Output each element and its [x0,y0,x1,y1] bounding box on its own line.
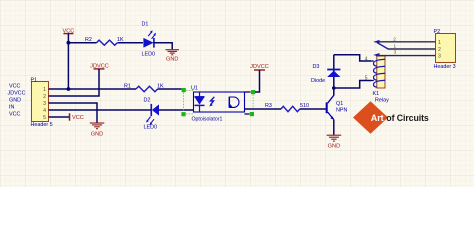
junction VCC / R2 branch [67,41,71,45]
svg-text:JDVCC: JDVCC [250,64,269,70]
resistor R1 [124,83,164,91]
svg-text:GND: GND [9,98,21,104]
svg-text:D3: D3 [313,64,320,70]
svg-text:1: 1 [394,43,397,48]
U1 pin 3 stub [245,113,250,115]
U1 marker dashed links [184,90,254,114]
svg-text:IN: IN [9,105,14,111]
wire D2 anode to U1 [159,109,194,111]
power port VCC (top) [62,28,74,34]
svg-text:2: 2 [438,47,441,53]
LED D2 [144,97,160,130]
svg-text:2: 2 [393,37,396,42]
wire D3 cathode to relay pin 4 [334,55,371,61]
wire P1 pin 3 to ground [49,103,98,123]
svg-text:Header 3: Header 3 [434,64,456,70]
svg-text:3: 3 [43,101,46,107]
connector P2 (Header 3) [434,29,456,70]
svg-text:Optoisolator1: Optoisolator1 [192,116,223,122]
U1 pin 4 stub [245,91,251,93]
wire K1 pin 3 to P2 pin 3 [376,55,436,57]
junction collector / D3 / relay coil [332,86,336,90]
resistor R3 [265,103,309,112]
svg-text:3: 3 [394,49,397,54]
junction VCC rail / pin 1 wire [67,87,71,91]
svg-text:GND: GND [91,132,103,138]
svg-text:Q1: Q1 [336,101,343,107]
power port JDVCC (left) [90,64,109,70]
svg-text:JDVCC: JDVCC [8,91,26,97]
svg-text:P1: P1 [31,77,38,83]
svg-text:2: 2 [43,94,46,100]
svg-text:LED0: LED0 [142,52,156,58]
wire VCC rail down to P1 pin 1 [67,34,69,89]
svg-text:Art: Art [371,113,384,123]
svg-text:LED0: LED0 [144,124,158,130]
wire Q1 collector up [333,88,335,96]
wire R1 to U1 pin 1 [158,88,182,90]
svg-text:4: 4 [365,56,368,62]
optoisolator U1 [191,85,245,122]
connector P1 (Header 5) [31,77,53,128]
svg-text:Header 5: Header 5 [31,122,53,128]
ground (P1 pin 3) [90,123,105,138]
wire R3 to Q1 base [300,108,326,110]
svg-text:of Circuits: of Circuits [386,113,429,123]
K1 contact NO arrow (pin 3) [373,53,379,57]
transistor Q1 (NPN) [327,95,348,120]
U1 pin 3 marker (green) [250,112,254,116]
U1 pin 2 marker (green) [181,112,185,116]
svg-text:VCC: VCC [9,84,20,90]
svg-text:GND: GND [166,57,178,63]
wire VCC junction to R2 [68,42,96,44]
U1 pin 1 marker (green) [182,88,186,92]
LED D1 [142,22,157,58]
ground (D1) [166,50,180,63]
ground (Q1 emitter) [327,135,342,149]
power port JDVCC (right) [250,64,269,70]
resistor R2 [85,37,124,45]
svg-text:D2: D2 [144,97,151,103]
wire Q1 emitter to ground [333,120,335,135]
svg-text:4: 4 [43,108,46,114]
wire JDVCC to U1 pin 4 [255,70,260,92]
svg-text:510: 510 [300,103,309,109]
K1 common pole armature (pin 1) [377,43,388,50]
svg-text:Diode: Diode [311,78,325,84]
svg-text:5: 5 [43,115,46,121]
power port VCC (P1 pin 5) [70,113,84,121]
Art of Circuits logo [353,101,429,134]
svg-text:R1: R1 [124,83,131,89]
svg-text:3: 3 [438,53,441,59]
svg-text:GND: GND [328,143,340,149]
svg-text:5: 5 [365,76,368,82]
svg-text:VCC: VCC [9,112,20,118]
wire U1 pin 3 to R3 [245,108,282,110]
wire JDVCC down to P1 pin 2 [49,69,100,96]
wire D3 branch vertical [333,55,335,88]
svg-text:R3: R3 [265,103,272,109]
svg-text:K1: K1 [373,91,380,97]
wire R2 to D1 anode [118,42,144,44]
svg-text:1: 1 [438,40,441,46]
wire P1 pin 4 (IN) to D2 [49,109,152,111]
relay K1 coil [371,56,390,103]
wire D1 cathode to ground [154,43,173,50]
svg-text:NPN: NPN [336,108,347,114]
wire K1 pin 1 to P2 pin 2 [388,48,436,50]
K1 contact NC arrow (pin 2) [373,40,379,44]
wire P1 pin 1 to R1 [49,88,137,90]
svg-text:1: 1 [43,87,46,93]
svg-text:Relay: Relay [375,97,389,103]
wire relay pin 5 to collector junction [334,81,371,89]
svg-text:VCC: VCC [72,115,84,121]
U1 pin 4 marker (green) [251,90,255,94]
svg-text:D1: D1 [142,22,149,28]
wire P1 pin 5 stub [49,116,70,118]
diode D3 [311,64,340,84]
wire K1 pin 2 to P2 pin 1 [376,41,436,43]
